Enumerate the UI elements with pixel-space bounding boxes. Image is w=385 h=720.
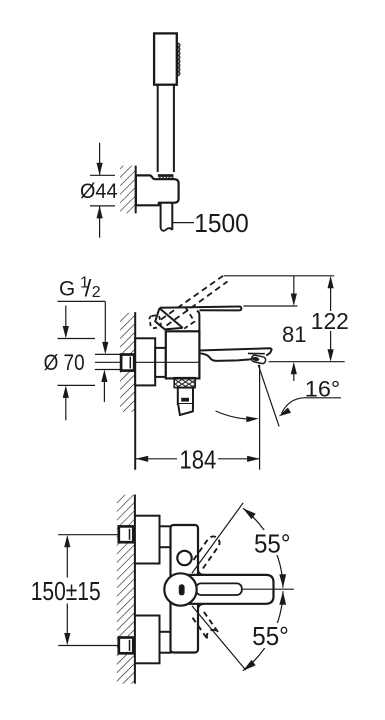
svg-text:2: 2 — [92, 284, 101, 301]
svg-text:81: 81 — [282, 322, 307, 347]
svg-text:150±15: 150±15 — [31, 576, 101, 606]
svg-text:55°: 55° — [254, 528, 291, 558]
svg-text:184: 184 — [179, 445, 216, 475]
svg-text:G: G — [59, 278, 75, 301]
svg-text:55°: 55° — [252, 621, 288, 651]
svg-text:Ø 70: Ø 70 — [44, 350, 85, 375]
svg-text:Ø44: Ø44 — [80, 180, 118, 203]
svg-text:/: / — [85, 276, 92, 303]
svg-text:1500: 1500 — [194, 208, 249, 238]
svg-text:122: 122 — [311, 308, 349, 334]
